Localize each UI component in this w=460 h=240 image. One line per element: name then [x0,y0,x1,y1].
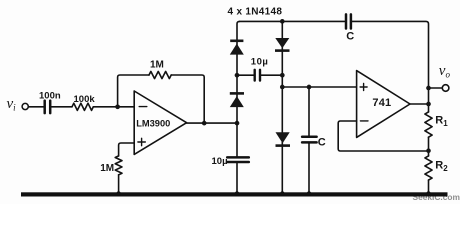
output terminal vo [442,85,449,92]
node output-diode junction dot [235,121,240,126]
wire R100k to LM3900 inverting input [93,106,134,108]
wire 10u horizontal left [237,74,253,76]
resistor R2 [425,156,432,180]
wire left diode branch vertical [237,21,240,123]
wire vi to C100n [28,106,43,108]
node feedback-output junction dot [202,121,207,126]
wire plus input to 1M [119,143,135,156]
wire 741 output [410,103,429,105]
diode D1 [230,40,244,55]
ground bus [21,192,448,196]
wire 10u horizontal right [261,74,282,76]
wire feedback right vertical [171,75,204,123]
svg-text:1M: 1M [150,60,164,71]
capacitor C right [302,137,317,143]
node top rail junction dot [280,19,285,24]
node plus-wire junction dot [280,85,285,90]
minus sign LM3900 [139,106,147,108]
input terminal vi [22,103,28,109]
wire C branch lower [308,144,310,193]
svg-text:C: C [318,136,326,148]
wire top rail right segment [352,21,428,192]
wire 1M to ground bus [118,175,120,193]
resistor 1M to ground [115,156,122,175]
wire 741 minus feedback [338,121,428,151]
wire to 741 plus input [282,86,356,88]
diode D4 [276,132,291,147]
plus sign 741 [360,84,367,91]
svg-text:LM3900: LM3900 [136,119,170,129]
svg-text:10µ: 10µ [251,56,269,67]
wire right diode branch vertical [281,21,283,192]
plus sign LM3900 [138,138,145,145]
svg-text:100n: 100n [39,91,61,102]
wire left branch to 10u lower cap [236,123,238,156]
capacitor 10u lower [227,157,249,162]
wire C100n to R100k [52,106,73,108]
svg-text:741: 741 [372,97,391,109]
wire C branch upper [308,87,310,136]
node vo tap junction dot [426,86,431,91]
minus sign 741 [360,120,368,122]
diode D3 [275,38,290,52]
capacitor C100n [45,101,51,114]
svg-text:4 x 1N4148: 4 x 1N4148 [228,7,283,18]
resistor R100k [72,103,93,110]
resistor R1 [425,112,432,137]
node C-branch junction dot [307,85,312,90]
svg-text:C: C [346,31,354,43]
resistor 1M feedback [149,71,171,78]
node 10u-right junction dot [280,73,285,78]
svg-text:100k: 100k [74,94,96,105]
svg-text:10µ: 10µ [212,156,228,167]
capacitor 10u coupling [255,70,260,81]
node D1-D2 junction dot [235,73,240,78]
wire top rail left segment [240,20,345,22]
wire LM3900 output [187,122,237,124]
svg-text:1M: 1M [100,163,114,174]
capacitor C top [346,14,351,28]
diode D2 [230,92,244,107]
node A junction dot [115,104,120,109]
wire to vo terminal [429,87,443,89]
node 741 output junction dot [426,102,431,107]
op-amp U1 LM3900 [134,91,186,154]
node bus junction dots [116,191,431,196]
op-amp U2 741 [357,71,410,138]
node R1-R2-feedback junction dot [426,148,431,153]
wire 10u lower to ground [236,163,238,192]
wire feedback left vertical [118,75,149,107]
